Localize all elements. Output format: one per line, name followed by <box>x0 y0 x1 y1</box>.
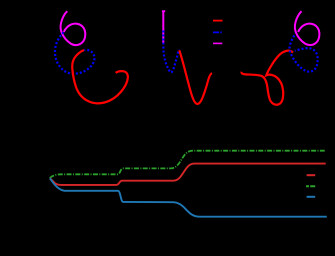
panel2 red valley segment <box>179 50 212 104</box>
panel2 blue dotted V segment <box>163 31 179 73</box>
bottom legend green dashed entry <box>306 185 315 187</box>
panel1 red loop segment <box>72 50 128 103</box>
bottom legend blue entry <box>307 196 316 198</box>
bottom chart green dash-dot line <box>50 151 325 178</box>
panel2 magenta top cap <box>162 10 165 12</box>
top legend blue dotted entry <box>213 31 222 33</box>
panel3 blue dotted circle segment <box>290 32 318 71</box>
panel1 magenta spiral segment <box>61 11 86 45</box>
panel2 magenta vertical line <box>162 11 164 43</box>
panel3 magenta spiral segment <box>295 11 320 45</box>
top legend red entry <box>213 20 223 22</box>
bottom legend red entry <box>307 174 316 176</box>
panel1 blue dotted circle segment <box>55 32 94 73</box>
panel3 red loop segment <box>242 51 293 105</box>
top legend magenta entry <box>213 42 222 44</box>
bottom chart red line <box>50 164 326 185</box>
bottom chart blue line <box>50 178 327 216</box>
